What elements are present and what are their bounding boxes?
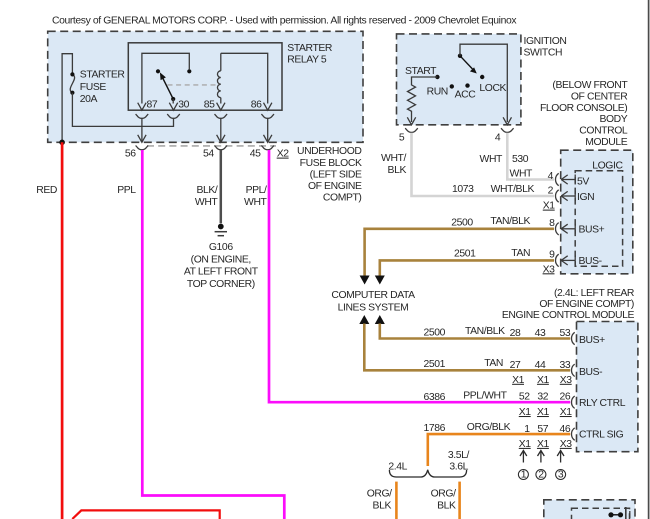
node LOCK: [480, 75, 484, 79]
svg-text:ORG/: ORG/: [431, 489, 456, 500]
svg-text:X3: X3: [560, 439, 573, 450]
starter motor box (partial, red): [72, 510, 219, 519]
fuse F (starter fuse): [70, 74, 74, 92]
switch arm with arrowhead: [163, 78, 173, 99]
svg-text:6386: 6386: [424, 392, 446, 403]
ECM box: [577, 322, 638, 452]
svg-text:MODULE: MODULE: [585, 137, 628, 148]
svg-text:52: 52: [519, 391, 530, 402]
svg-text:3.6L: 3.6L: [449, 461, 468, 472]
wire: fuse to relay pin 30: [72, 93, 173, 127]
svg-text:30: 30: [178, 99, 189, 110]
svg-text:BLK: BLK: [437, 500, 456, 511]
svg-text:3: 3: [558, 469, 564, 480]
wire pin86 to terminal 45: [267, 118, 269, 142]
svg-text:FUSE: FUSE: [80, 82, 107, 93]
svg-text:SWITCH: SWITCH: [524, 48, 563, 59]
svg-text:RLY CTRL: RLY CTRL: [579, 398, 626, 409]
svg-text:X1: X1: [519, 407, 532, 418]
svg-text:1073: 1073: [452, 184, 474, 195]
junction node dot: [59, 140, 65, 146]
svg-text:BLK: BLK: [373, 500, 392, 511]
svg-text:BODY: BODY: [599, 114, 627, 125]
wire TAN 2501 BCM BUS- to data lines: [380, 260, 554, 275]
ignition rotor arm: [458, 54, 462, 58]
svg-text:PPL: PPL: [117, 185, 136, 196]
svg-text:X1: X1: [537, 407, 550, 418]
wire rotor to terminal 4: [460, 44, 507, 122]
svg-text:28: 28: [510, 328, 521, 339]
X2 connector dashed line: [147, 145, 276, 147]
up arrow to data lines (left): [359, 315, 369, 324]
node RUN: [450, 84, 454, 88]
svg-text:OF ENGINE: OF ENGINE: [308, 181, 362, 192]
svg-text:9: 9: [549, 250, 555, 261]
svg-text:2500: 2500: [451, 217, 473, 228]
svg-text:IGN: IGN: [577, 192, 594, 203]
svg-text:5: 5: [399, 132, 405, 143]
page right edge rule: [648, 0, 650, 519]
svg-text:LOCK: LOCK: [479, 83, 506, 94]
svg-text:LOGIC: LOGIC: [592, 161, 623, 172]
svg-text:BLK/: BLK/: [196, 185, 217, 196]
circled 1: [518, 470, 528, 480]
svg-text:86: 86: [251, 99, 262, 110]
svg-text:WHT: WHT: [244, 197, 268, 208]
svg-text:2.4L: 2.4L: [388, 461, 407, 472]
wire TAN 2501 to ECM BUS-: [364, 324, 570, 371]
svg-text:2501: 2501: [424, 359, 446, 370]
svg-text:2500: 2500: [424, 327, 446, 338]
svg-text:8: 8: [549, 218, 555, 229]
node ACC: [465, 83, 469, 87]
svg-text:1786: 1786: [424, 423, 446, 434]
svg-text:Courtesy of GENERAL MOTORS COR: Courtesy of GENERAL MOTORS CORP. - Used …: [52, 16, 517, 27]
pin arrows at relay box bottom: [138, 103, 146, 111]
wire WHT/BLK ignition 5 to BCM pin 2: [412, 133, 555, 196]
relay moving contact dot (pin 30): [187, 69, 191, 73]
svg-text:ENGINE CONTROL MODULE: ENGINE CONTROL MODULE: [502, 310, 635, 321]
svg-text:2: 2: [538, 469, 544, 480]
wire PPL/WHT terminal 45 to ECM RLY CTRL: [269, 150, 570, 402]
wire TAN/BLK 2500 BCM BUS+ to data lines: [365, 229, 554, 276]
svg-text:X1: X1: [543, 201, 556, 212]
svg-text:X1: X1: [537, 439, 550, 450]
svg-text:BUS-: BUS-: [579, 256, 602, 267]
svg-text:27: 27: [510, 360, 521, 371]
svg-text:530: 530: [512, 154, 529, 165]
svg-text:LINES SYSTEM: LINES SYSTEM: [338, 302, 409, 313]
svg-text:RED: RED: [36, 185, 57, 196]
svg-text:X3: X3: [560, 375, 573, 386]
svg-text:54: 54: [203, 149, 214, 160]
svg-text:WHT: WHT: [195, 197, 219, 208]
svg-text:4: 4: [495, 132, 501, 143]
svg-text:(ON ENGINE,: (ON ENGINE,: [191, 254, 251, 265]
wire pin87 to terminal 56: [141, 118, 143, 142]
svg-text:OF CENTER: OF CENTER: [571, 91, 628, 102]
svg-text:CONTROL: CONTROL: [579, 126, 628, 137]
resistor to terminal 5: [408, 77, 438, 118]
svg-text:(BELOW FRONT: (BELOW FRONT: [552, 80, 628, 91]
wire: battery hook to fuse: [62, 54, 72, 143]
ground G106: [218, 224, 224, 230]
engine split brace: [389, 470, 466, 477]
ignition terminal cups: [405, 128, 418, 132]
svg-text:TAN: TAN: [484, 358, 503, 369]
svg-text:WHT/: WHT/: [381, 153, 406, 164]
cups under relay pins: [136, 114, 149, 118]
node START: [435, 75, 439, 79]
relay contact fixed dot: [156, 69, 160, 73]
svg-text:43: 43: [535, 328, 546, 339]
wire WHT ignition 4 to BCM pin 4: [507, 133, 554, 180]
svg-text:1: 1: [521, 469, 527, 480]
svg-text:OF ENGINE COMPT): OF ENGINE COMPT): [539, 299, 634, 310]
svg-text:IGNITION: IGNITION: [524, 36, 567, 47]
starter relay 5 box: [128, 43, 282, 110]
bottom right module box: [544, 500, 635, 519]
BCM logic inner box: [575, 171, 622, 266]
svg-text:X1: X1: [537, 375, 550, 386]
svg-text:TAN/BLK: TAN/BLK: [490, 216, 530, 227]
svg-text:BUS+: BUS+: [579, 335, 605, 346]
svg-text:2: 2: [548, 186, 554, 197]
svg-text:56: 56: [125, 149, 136, 160]
svg-text:RELAY 5: RELAY 5: [287, 55, 327, 66]
svg-text:53: 53: [560, 328, 571, 339]
wire PPL terminal 56 down and right: [142, 150, 284, 519]
svg-text:COMPT): COMPT): [323, 193, 362, 204]
svg-text:2501: 2501: [454, 249, 476, 260]
svg-text:20A: 20A: [80, 94, 98, 105]
svg-text:X1: X1: [560, 407, 573, 418]
svg-text:(2.4L: LEFT REAR: (2.4L: LEFT REAR: [554, 288, 635, 299]
svg-text:X1: X1: [519, 439, 532, 450]
cups under fuse block terminals: [136, 146, 149, 150]
svg-text:X2: X2: [277, 149, 290, 160]
engine option arrows: [520, 451, 527, 463]
wire ORG/BLK 2.4L branch: [395, 482, 398, 519]
svg-text:COMPUTER DATA: COMPUTER DATA: [331, 290, 415, 301]
svg-text:TAN/BLK: TAN/BLK: [465, 326, 505, 337]
svg-text:PPL/: PPL/: [246, 185, 267, 196]
svg-text:87: 87: [147, 99, 158, 110]
contact top bar: [142, 53, 189, 103]
wire pin85 to terminal 54: [220, 118, 222, 142]
svg-text:85: 85: [204, 99, 215, 110]
bottom right inner box: [572, 508, 630, 519]
svg-text:FUSE BLOCK: FUSE BLOCK: [300, 158, 362, 169]
svg-text:WHT/BLK: WHT/BLK: [491, 184, 535, 195]
wire ORG/BLK 1786: [428, 434, 570, 466]
svg-text:5V: 5V: [577, 176, 589, 187]
svg-text:START: START: [405, 66, 437, 77]
svg-text:CTRL SIG: CTRL SIG: [579, 430, 624, 441]
svg-text:G106: G106: [209, 242, 233, 253]
wire BLK/WHT terminal 54 to ground: [220, 150, 223, 223]
svg-text:X3: X3: [543, 264, 556, 275]
svg-text:WHT: WHT: [480, 154, 504, 165]
svg-text:(LEFT SIDE: (LEFT SIDE: [310, 169, 362, 180]
ignition switch box: [397, 34, 521, 125]
actuator dashed link: [168, 84, 218, 86]
bottom right switch contacts: [608, 512, 613, 517]
svg-text:26: 26: [560, 391, 571, 402]
svg-text:WHT: WHT: [510, 168, 534, 179]
svg-text:4: 4: [548, 171, 554, 182]
svg-text:44: 44: [535, 360, 546, 371]
svg-text:RUN: RUN: [427, 86, 448, 97]
svg-text:3.5L/: 3.5L/: [448, 450, 470, 461]
relay coil: [220, 53, 222, 71]
circled 2: [536, 470, 546, 480]
svg-text:ORG/BLK: ORG/BLK: [467, 422, 511, 433]
svg-text:BUS+: BUS+: [579, 225, 605, 236]
svg-text:AT LEFT FRONT: AT LEFT FRONT: [184, 267, 259, 278]
svg-text:PPL/WHT: PPL/WHT: [463, 391, 507, 402]
underhood fuse block box: [48, 31, 363, 142]
up arrow to data lines (right): [375, 315, 385, 324]
svg-text:45: 45: [250, 149, 261, 160]
svg-text:32: 32: [537, 391, 548, 402]
svg-text:STARTER: STARTER: [80, 70, 126, 81]
svg-text:BLK: BLK: [388, 165, 407, 176]
svg-text:BUS-: BUS-: [579, 367, 602, 378]
svg-text:STARTER: STARTER: [287, 43, 333, 54]
svg-text:TOP CORNER): TOP CORNER): [187, 279, 255, 290]
BCM box: [561, 150, 633, 274]
svg-text:UNDERHOOD: UNDERHOOD: [297, 146, 362, 157]
coil top bar to pin 86: [221, 53, 268, 103]
wire ORG/BLK 3.5L/3.6L branch: [458, 482, 461, 519]
svg-text:ACC: ACC: [455, 90, 477, 101]
wire TAN/BLK 2500 to ECM BUS+: [380, 324, 570, 339]
svg-text:FLOOR CONSOLE): FLOOR CONSOLE): [540, 103, 627, 114]
svg-text:X1: X1: [512, 375, 525, 386]
svg-text:ORG/: ORG/: [367, 489, 392, 500]
wire RED battery feed: [61, 142, 64, 519]
svg-text:TAN: TAN: [511, 248, 530, 259]
circled 3: [556, 470, 566, 480]
svg-text:33: 33: [560, 360, 571, 371]
